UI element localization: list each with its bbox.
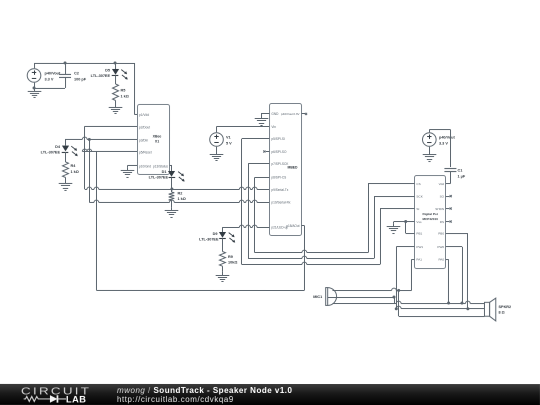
svg-text:LTL-307EE: LTL-307EE [149,175,169,179]
svg-text:R4: R4 [71,164,77,168]
svg-text:p9/Serial-Tx: p9/Serial-Tx [271,188,288,192]
svg-text:D5: D5 [105,68,110,72]
svg-text:1 kΩ: 1 kΩ [71,170,79,174]
svg-text:p10/Serial-Rx: p10/Serial-Rx [271,201,290,205]
svg-text:PW0: PW0 [437,245,444,249]
svg-text:SO: SO [440,194,445,198]
svg-text:p18/AOut: p18/AOut [286,224,299,228]
svg-text:10kΩ: 10kΩ [228,260,237,264]
svg-text:MBED: MBED [288,166,299,170]
svg-text:p5/SPI-SI: p5/SPI-SI [271,137,285,141]
svg-text:R9: R9 [228,255,233,259]
svg-text:5 V: 5 V [226,141,232,145]
svg-text:PA1: PA1 [416,258,422,262]
svg-text:1 kΩ: 1 kΩ [121,94,129,98]
svg-text:LTL-307EE: LTL-307EE [41,150,61,154]
svg-text:1 µF: 1 µF [458,175,466,179]
svg-text:MIC1: MIC1 [313,295,322,299]
svg-text:C1: C1 [458,169,463,173]
svg-text:PB0: PB0 [438,232,444,236]
svg-text:R2: R2 [178,191,183,195]
svg-text:R5: R5 [121,88,126,92]
svg-text:p40/Vout3.3V: p40/Vout3.3V [281,112,301,116]
svg-text:XBee: XBee [153,134,162,138]
svg-text:p10/Gnd: p10/Gnd [139,164,151,168]
svg-text:RS: RS [440,220,444,224]
svg-text:PB1: PB1 [416,232,422,236]
svg-text:CS: CS [416,182,420,186]
svg-text:p5/Reset: p5/Reset [139,150,152,154]
svg-text:100 pF: 100 pF [74,77,87,81]
svg-text:LTL-307EE: LTL-307EE [199,238,219,242]
svg-text:LAB: LAB [66,395,86,405]
svg-text:C2: C2 [74,71,79,75]
svg-text:MCP42010: MCP42010 [422,217,438,221]
svg-text:D1: D1 [162,170,167,174]
svg-text:PW1: PW1 [416,245,423,249]
svg-text:Vdd: Vdd [439,182,445,186]
svg-text:SPKR2: SPKR2 [498,305,511,309]
svg-text:Vin: Vin [271,125,276,129]
svg-text:p13/Status: p13/Status [153,164,168,168]
svg-text:X1: X1 [155,140,159,144]
svg-text:Digital Pot: Digital Pot [423,212,438,216]
svg-text:Vss: Vss [416,220,422,224]
svg-text:8 Ω: 8 Ω [498,311,504,315]
svg-text:p6/SPI-SO: p6/SPI-SO [271,150,287,154]
svg-text:p2/Dout: p2/Dout [139,125,150,129]
svg-text:3.3 V: 3.3 V [45,77,54,81]
svg-text:p3/Din: p3/Din [139,138,148,142]
svg-text:1 kΩ: 1 kΩ [178,197,186,201]
svg-text:D9: D9 [213,232,218,236]
svg-text:SHDN: SHDN [435,207,444,211]
svg-text:D4: D4 [55,145,61,149]
svg-text:p8/SPI-CS: p8/SPI-CS [271,176,286,180]
svg-text:PA0: PA0 [438,258,444,262]
svg-text:p40/Vout: p40/Vout [439,136,455,140]
svg-text:GND: GND [271,112,279,116]
svg-text:p1/Vdd: p1/Vdd [139,113,149,117]
svg-text:V1: V1 [226,135,231,139]
svg-text:p40/Vout: p40/Vout [45,71,61,75]
svg-text:3.3 V: 3.3 V [439,142,448,146]
svg-text:SI: SI [416,207,419,211]
svg-text:SCK: SCK [416,194,423,198]
svg-text:LTL-307EE: LTL-307EE [91,74,111,78]
